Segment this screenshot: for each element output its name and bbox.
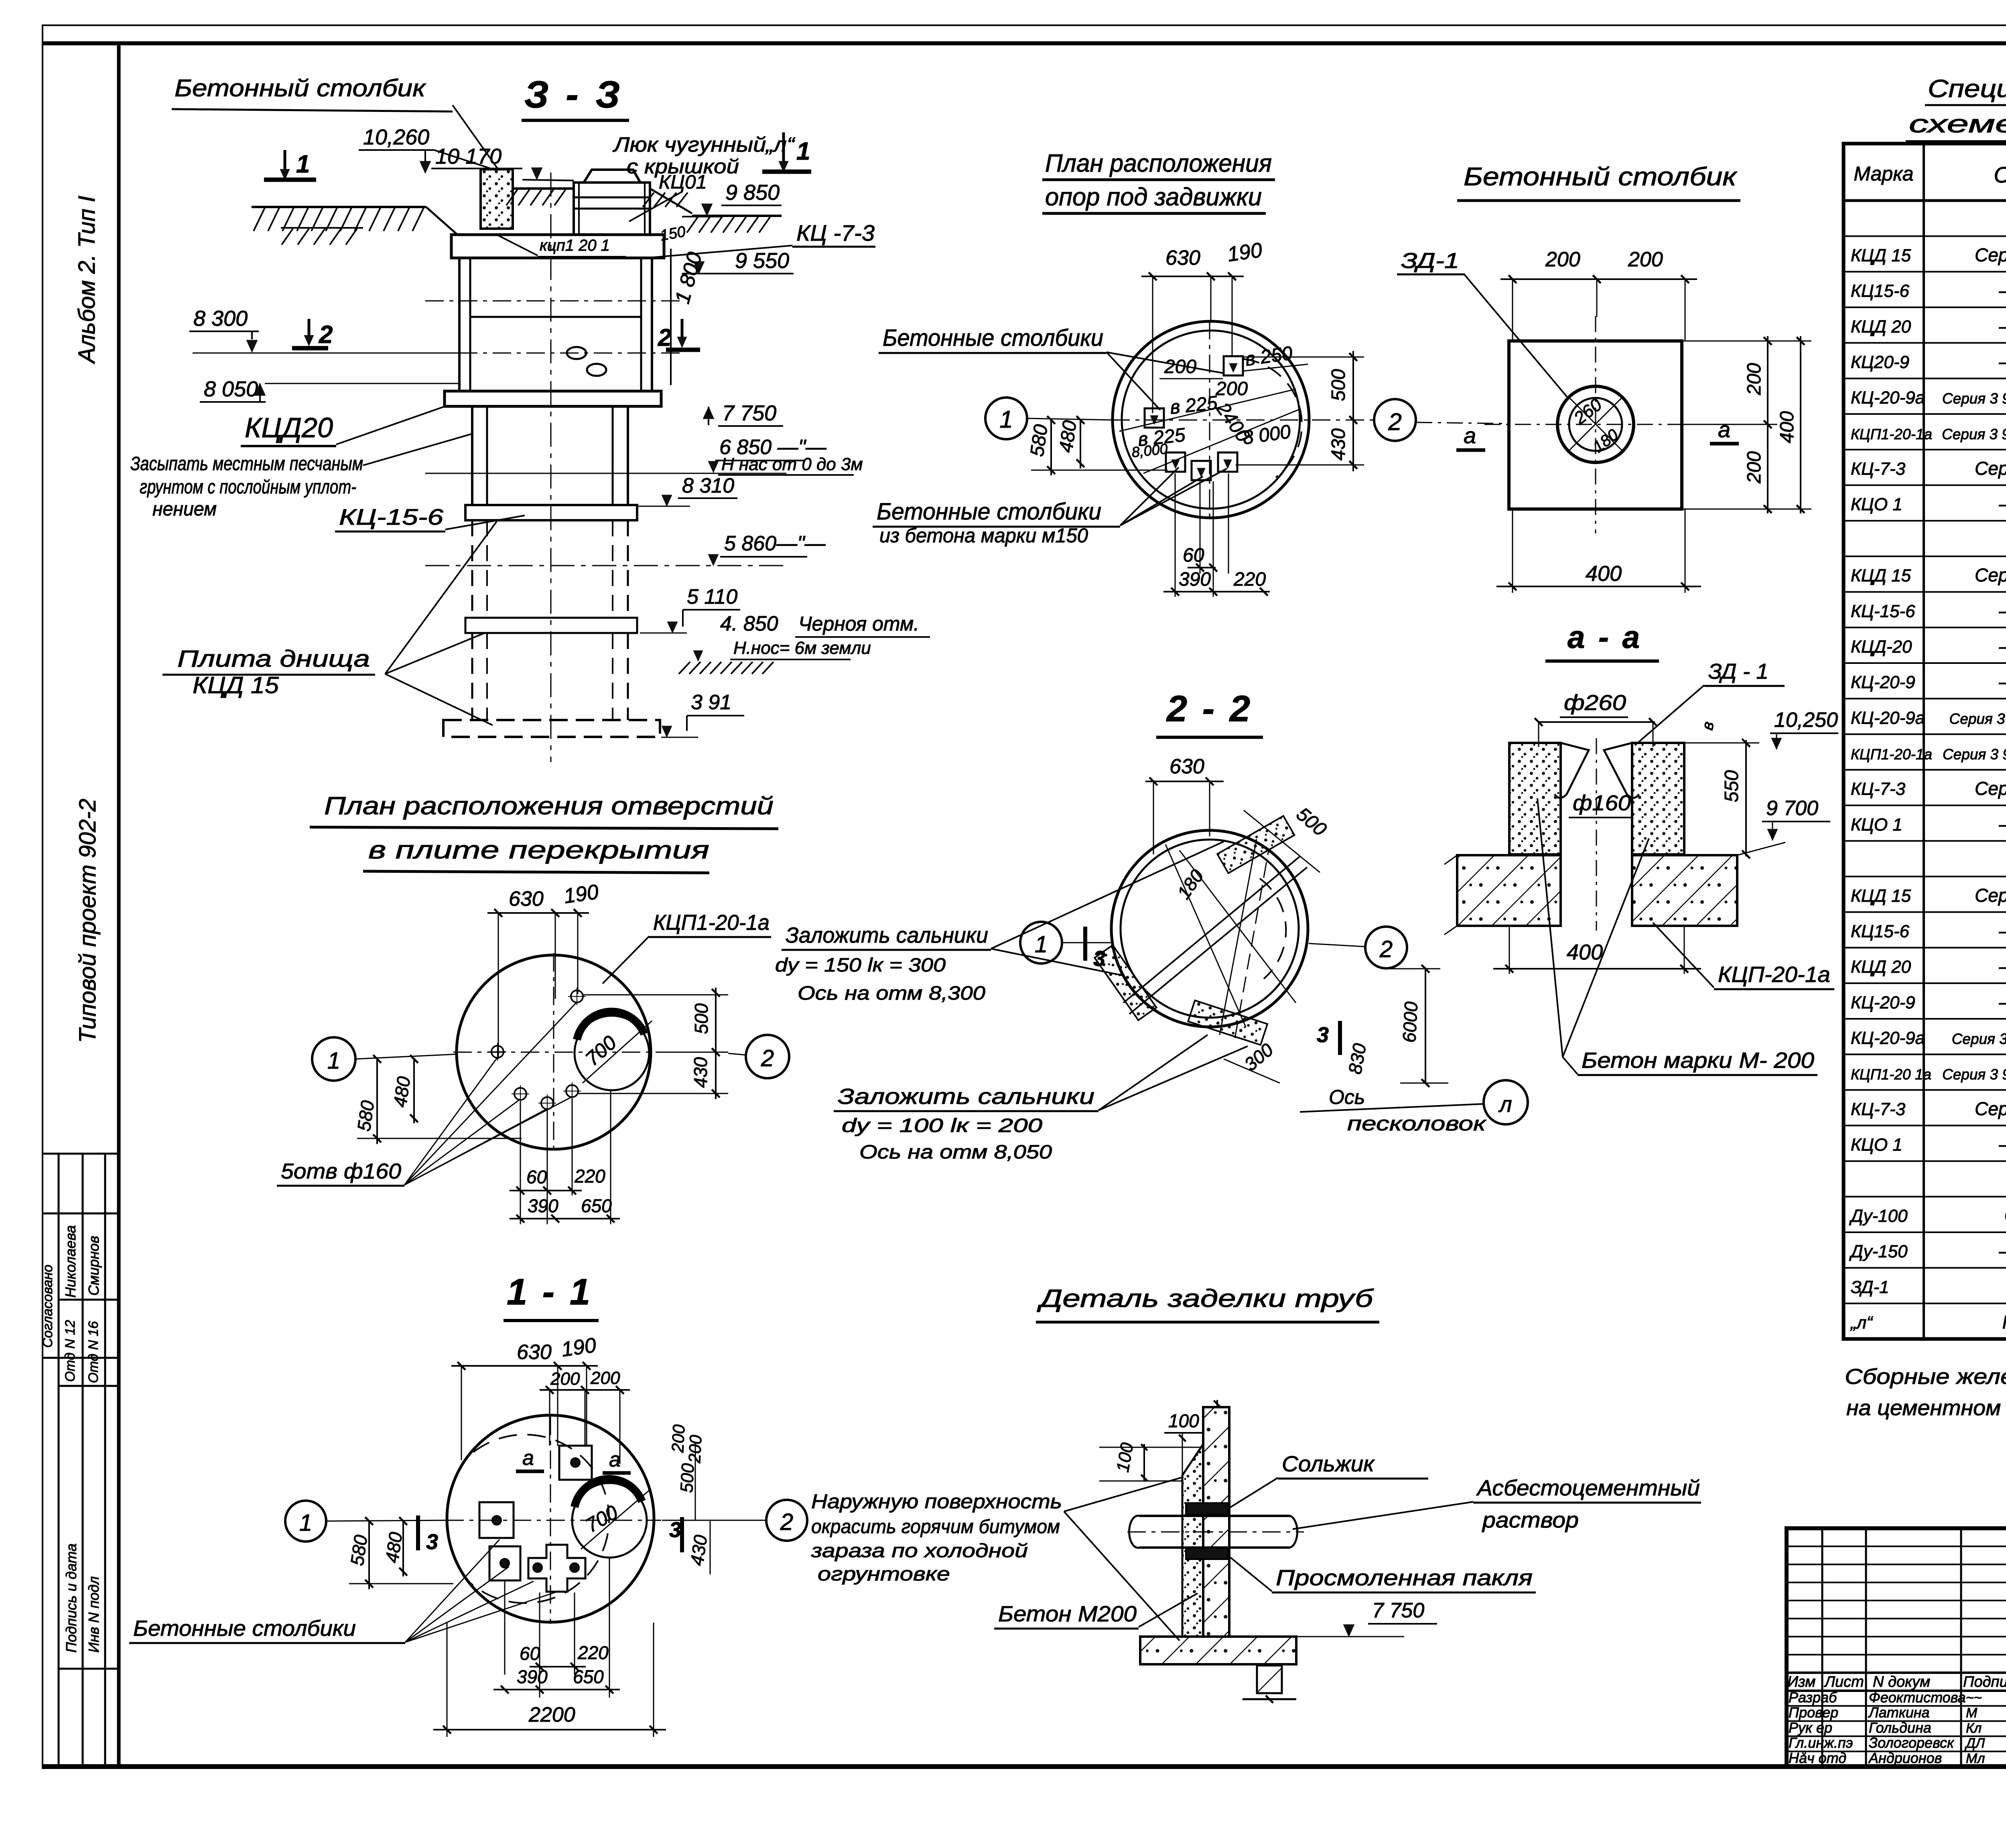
svg-text:Серия 3 900-3 вып 7: Серия 3 900-3 вып 7 — [1975, 1098, 2006, 1119]
svg-text:400: 400 — [1777, 411, 1798, 443]
lower shaft walls and rings — [443, 172, 660, 762]
svg-text:60: 60 — [1183, 545, 1204, 566]
svg-text:М: М — [1966, 1706, 1978, 1721]
svg-text:390: 390 — [1179, 569, 1211, 590]
svg-text:грунтом с послойным уплот-: грунтом с послойным уплот- — [140, 477, 356, 498]
holes plan dims 630 190 — [487, 880, 600, 1059]
svg-text:в: в — [1699, 720, 1718, 731]
svg-text:550: 550 — [1721, 770, 1742, 802]
spec table header row — [1854, 156, 2006, 196]
svg-text:КЦ-20-9а: КЦ-20-9а — [1851, 388, 1925, 408]
svg-text:из бетона марки м150: из бетона марки м150 — [879, 524, 1088, 547]
svg-text:630: 630 — [509, 887, 544, 911]
svg-text:dy = 100 lк = 200: dy = 100 lк = 200 — [842, 1115, 1042, 1136]
svg-text:Ось на отм 8,050: Ось на отм 8,050 — [859, 1142, 1052, 1163]
svg-text:200: 200 — [1545, 248, 1580, 271]
svg-text:Согласовано: Согласовано — [40, 1265, 55, 1348]
concrete support blocks (5 squares) — [1145, 356, 1243, 480]
svg-text:Типовой проект 902-2: Типовой проект 902-2 — [75, 799, 101, 1043]
svg-text:6000: 6000 — [1399, 1001, 1421, 1043]
1-1 dims top — [451, 1333, 630, 1464]
svg-text:Подпись и дата: Подпись и дата — [63, 1544, 79, 1653]
2-2 dims top — [1145, 755, 1331, 903]
svg-text:Инв N подл: Инв N подл — [85, 1576, 102, 1653]
svg-text:КЦД-20: КЦД-20 — [1851, 637, 1912, 657]
svg-text:Изм: Изм — [1787, 1674, 1815, 1690]
svg-text:——— „ ———: ——— „ ——— — [1999, 316, 2006, 337]
svg-text:190: 190 — [562, 880, 600, 908]
svg-text:Бетонный столбик: Бетонный столбик — [175, 75, 426, 101]
svg-text:Отд N 16: Отд N 16 — [86, 1321, 101, 1383]
1-1 support squares — [479, 1446, 592, 1592]
left margin rotated captions — [40, 196, 102, 1653]
svg-text:3: 3 — [426, 1530, 438, 1554]
svg-text:——— „ ———: ——— „ ——— — [1999, 1241, 2006, 1262]
plan title: План расположения опор под задвижки — [1042, 150, 1275, 213]
svg-text:——— „ ———: ——— „ ——— — [1999, 920, 2006, 941]
svg-text:——— „ ———: ——— „ ——— — [1999, 636, 2006, 657]
level 3 91 — [661, 691, 744, 737]
2-2 axis bubble 1 and cut 3 left — [1020, 922, 1111, 971]
svg-text:700: 700 — [581, 1031, 621, 1071]
svg-text:Ось: Ось — [1329, 1086, 1365, 1108]
dim ф160 — [1569, 791, 1631, 818]
svg-text:КЦ01: КЦ01 — [659, 172, 707, 193]
svg-text:Серия 3901-5: Серия 3901-5 — [2004, 1205, 2006, 1226]
svg-text:Сольжик: Сольжик — [1282, 1451, 1375, 1476]
svg-text:а: а — [1718, 417, 1730, 442]
svg-text:——— „ ———: ——— „ ——— — [1999, 992, 2006, 1012]
holes plan circle — [453, 953, 661, 1154]
section 1-1 title — [504, 1272, 599, 1321]
svg-text:Бетонные столбики: Бетонные столбики — [877, 499, 1101, 525]
svg-text:Гольдина: Гольдина — [1869, 1719, 1931, 1736]
svg-text:КЦО 1: КЦО 1 — [1851, 815, 1902, 834]
title block frame — [1787, 1528, 2006, 1767]
title block revision grid — [1787, 1528, 2006, 1767]
svg-text:КЦ15-6: КЦ15-6 — [1851, 921, 1910, 941]
section cut mark 2 (right) — [658, 319, 700, 351]
svg-text:1 800: 1 800 — [671, 250, 707, 306]
svg-text:430: 430 — [690, 1057, 711, 1088]
svg-text:КЦ-7-3: КЦ-7-3 — [1851, 459, 1906, 479]
elevation 10,250 — [1770, 708, 1838, 749]
label Бетон М200 — [994, 1593, 1198, 1629]
svg-text:Серия 3 900-3 вып 7КЖИ КЦ-20-9: Серия 3 900-3 вып 7КЖИ КЦ-20-9а — [1942, 390, 2006, 407]
svg-text:Сборные железобетонные изделия: Сборные железобетонные изделия устанавли… — [1845, 1365, 2006, 1389]
chamber oval holes — [567, 347, 606, 376]
svg-text:ф260: ф260 — [1564, 691, 1626, 715]
svg-text:200: 200 — [1744, 451, 1765, 484]
dim ф260 — [1535, 691, 1657, 747]
label КЦ-7-3 — [651, 220, 875, 258]
label Бетонные столбики (1-1) — [129, 1540, 560, 1643]
svg-text:200: 200 — [590, 1368, 620, 1388]
label 5отв ф160 — [277, 1002, 577, 1186]
svg-text:Подпись: Подпись — [1963, 1674, 2006, 1690]
svg-text:200: 200 — [550, 1369, 580, 1389]
section 2-2 title — [1156, 688, 1263, 737]
1-1 bottom dims — [433, 1558, 666, 1737]
svg-text:опор под задвижки: опор под задвижки — [1045, 183, 1262, 211]
right dims 200 200 400 — [1682, 336, 1811, 513]
svg-text:Наружную поверхность: Наружную поверхность — [811, 1490, 1062, 1513]
svg-text:10,250: 10,250 — [1774, 708, 1838, 732]
svg-text:КЦП1-20-1а: КЦП1-20-1а — [1851, 426, 1932, 442]
a-a base slab hatched — [1444, 855, 1737, 935]
svg-text:Ду-150: Ду-150 — [1849, 1242, 1908, 1262]
label КЦД20 — [241, 406, 446, 446]
svg-text:ГОСТ 3634-61: ГОСТ 3634-61 — [2002, 1312, 2006, 1333]
svg-text:огрунтовке: огрунтовке — [818, 1564, 950, 1585]
svg-text:630: 630 — [517, 1341, 552, 1364]
svg-text:нением: нением — [152, 499, 217, 520]
svg-text:Бетонные столбики: Бетонные столбики — [883, 325, 1103, 351]
svg-text:N докум: N докум — [1873, 1674, 1930, 1690]
svg-text:1 - 1: 1 - 1 — [507, 1272, 593, 1312]
svg-text:630: 630 — [1169, 755, 1204, 778]
elevation 7 750 (detail) — [1296, 1599, 1437, 1637]
svg-text:2: 2 — [761, 1045, 774, 1071]
svg-text:песколовок: песколовок — [1347, 1112, 1487, 1135]
plan title: План расположения отверстий — [310, 792, 778, 873]
ground surface right of post — [506, 189, 782, 233]
svg-text:Ду-100: Ду-100 — [1849, 1206, 1908, 1226]
svg-text:8 300: 8 300 — [193, 306, 248, 331]
chamber walls — [425, 258, 682, 391]
svg-text:Марка: Марка — [1854, 162, 1913, 185]
svg-text:а - а: а - а — [1567, 619, 1642, 655]
svg-text:1: 1 — [796, 138, 810, 165]
svg-text:окрасить горячим битумом: окрасить горячим битумом — [811, 1516, 1060, 1538]
axis bubble Л — [1484, 1080, 1528, 1124]
1-1 axis bubble 2 — [662, 1500, 807, 1541]
dim 630 190 above plan — [1141, 238, 1264, 413]
svg-text:Бетон М200: Бетон М200 — [998, 1601, 1137, 1626]
svg-text:500: 500 — [1292, 803, 1331, 840]
svg-text:180: 180 — [1173, 866, 1208, 903]
label КЦП1-20-1а — [603, 911, 771, 984]
chamber bottom slab КЦД20 — [445, 391, 661, 406]
holes plan bottom dims — [510, 1090, 620, 1224]
svg-text:Разраб: Разраб — [1789, 1689, 1837, 1706]
label Просмоленная пакля — [1230, 1557, 1536, 1592]
2-2 pipes through chamber — [1123, 839, 1307, 1038]
holes plan right dims 500 430 — [578, 988, 728, 1099]
svg-text:КЦД 15: КЦД 15 — [1851, 566, 1911, 586]
ground surface left with hatch — [252, 207, 457, 245]
axis bubble 1 — [985, 398, 1113, 439]
svg-text:в плите перекрытия: в плите перекрытия — [368, 836, 709, 864]
level 8 310 — [638, 474, 737, 506]
plan title: Бетонный столбик — [1457, 162, 1740, 201]
svg-text:а: а — [522, 1446, 534, 1470]
svg-text:Провер: Провер — [1789, 1704, 1838, 1721]
gland packing bands — [1186, 1503, 1228, 1559]
svg-text:dy = 150 lк = 300: dy = 150 lк = 300 — [775, 955, 946, 976]
svg-text:Отд N 12: Отд N 12 — [63, 1320, 78, 1382]
svg-text:КЦ-7-3: КЦ-7-3 — [1851, 1099, 1906, 1119]
svg-text:Деталь заделки труб: Деталь заделки труб — [1037, 1285, 1374, 1312]
label Наружную поверхность окрасить — [811, 1477, 1184, 1641]
svg-text:200: 200 — [1744, 363, 1765, 396]
svg-text:8,000: 8,000 — [1131, 440, 1169, 460]
svg-text:КЦД 15: КЦД 15 — [1851, 886, 1911, 906]
svg-text:КЦО 1: КЦО 1 — [1851, 1135, 1902, 1155]
svg-text:на цементном растворе М-50: на цементном растворе М-50 — [1846, 1396, 2006, 1420]
svg-text:1: 1 — [296, 150, 310, 178]
svg-text:——— „ ———: ——— „ ——— — [1999, 1134, 2006, 1155]
a-a concrete post section — [1509, 738, 1684, 931]
label: Люк чугунный л с крышкой КЦ01 — [613, 133, 796, 221]
svg-text:2200: 2200 — [528, 1703, 575, 1726]
svg-text:КЦП1-20 1а: КЦП1-20 1а — [1851, 1066, 1931, 1083]
elevation 10,260 — [359, 125, 495, 173]
a-a cut marks — [1416, 417, 1739, 450]
svg-text:——— „ ———: ——— „ ——— — [1999, 493, 2006, 514]
svg-text:9 700: 9 700 — [1766, 797, 1818, 820]
svg-text:3: 3 — [1317, 1023, 1329, 1047]
label Бетонные столбики (upper) — [879, 325, 1223, 410]
svg-text:Люк чугунный„л“: Люк чугунный„л“ — [613, 133, 796, 156]
svg-text:Асбестоцементный: Асбестоцементный — [1476, 1475, 1700, 1500]
svg-text:Спецификация элементов к марки: Спецификация элементов к маркировочной — [1928, 75, 2006, 103]
spec table rows text — [1849, 207, 2006, 1333]
2-2 gland seal patches — [1094, 816, 1294, 1045]
dim 400 (a-a) — [1493, 927, 1701, 974]
svg-text:КЦ20-9: КЦ20-9 — [1851, 352, 1909, 372]
svg-text:Кл: Кл — [1966, 1720, 1982, 1736]
svg-text:480: 480 — [1055, 419, 1081, 454]
pipe — [1127, 1516, 1304, 1548]
svg-text:КЦ15-6: КЦ15-6 — [1851, 281, 1910, 301]
dim 300 on 2-2 — [1224, 1039, 1280, 1083]
svg-text:2: 2 — [1388, 408, 1401, 435]
1-1 right dims 200 500 430 — [668, 1424, 711, 1574]
section cut mark 1 (right) — [762, 132, 811, 172]
svg-text:190: 190 — [1226, 238, 1264, 266]
big hole 700 with crescent — [575, 1012, 652, 1090]
axis of sand traps label — [1300, 1086, 1487, 1135]
svg-text:Мл: Мл — [1966, 1751, 1985, 1766]
svg-text:Н.нос= 6м земли: Н.нос= 6м земли — [733, 638, 871, 658]
svg-text:Зологоревск: Зологоревск — [1869, 1734, 1955, 1751]
label Засыпать местным песчаным грунтом — [130, 434, 471, 520]
svg-text:8 050: 8 050 — [204, 377, 258, 401]
svg-text:Андрионов: Андрионов — [1868, 1750, 1942, 1766]
svg-text:КЦ-20-9а: КЦ-20-9а — [1851, 708, 1925, 728]
svg-text:а: а — [1464, 423, 1476, 448]
svg-text:60: 60 — [520, 1643, 540, 1664]
svg-text:КЦ-7-3: КЦ-7-3 — [1851, 779, 1906, 799]
svg-text:——— „ ———: ——— „ ——— — [1999, 956, 2006, 977]
level 6 850 — [425, 436, 863, 475]
svg-text:630: 630 — [1165, 246, 1200, 270]
svg-text:430: 430 — [686, 1534, 711, 1567]
inner dims 200 200 в250 в225 2400 8000 — [1119, 343, 1308, 473]
svg-text:580: 580 — [346, 1534, 371, 1567]
svg-text:Засыпать местным песчаным: Засыпать местным песчаным — [130, 453, 363, 475]
svg-text:Плита днища: Плита днища — [177, 646, 370, 672]
svg-text:220: 220 — [1233, 569, 1266, 590]
level 4.850 Черная отм — [679, 612, 930, 674]
holes plan left dims 580 480 — [353, 1055, 522, 1144]
section cut mark 1 (left) — [264, 150, 316, 180]
svg-text:1: 1 — [1035, 931, 1048, 957]
svg-text:ЗД-1: ЗД-1 — [1851, 1277, 1889, 1297]
svg-text:Ось на отм 8,300: Ось на отм 8,300 — [798, 983, 985, 1004]
svg-text:200: 200 — [1215, 378, 1248, 400]
left margin stamp table — [43, 1154, 119, 1767]
base slab — [1140, 1637, 1296, 1703]
manhole neck with cast-iron lid — [574, 170, 650, 235]
1-1 chamber circle — [445, 1415, 661, 1624]
svg-text:9 550: 9 550 — [735, 249, 789, 273]
svg-text:580: 580 — [353, 1099, 378, 1133]
svg-text:5отв ф160: 5отв ф160 — [281, 1159, 401, 1183]
title block signature rows — [1787, 1689, 2006, 1767]
svg-text:КЦ-20-9: КЦ-20-9 — [1851, 993, 1915, 1012]
spec table heading — [1906, 75, 2006, 141]
svg-text:Н нас от 0 до 3м: Н нас от 0 до 3м — [721, 454, 863, 474]
svg-text:60: 60 — [526, 1166, 547, 1187]
elevation 10 170 — [431, 144, 574, 181]
svg-text:500: 500 — [1328, 369, 1349, 401]
svg-text:в 225: в 225 — [1169, 392, 1219, 418]
svg-text:4. 850: 4. 850 — [720, 612, 778, 635]
elevation 9 700 — [1737, 797, 1830, 855]
svg-text:7 750: 7 750 — [722, 401, 776, 425]
elevation 9 850 — [682, 181, 782, 217]
1-1 a marks — [516, 1446, 631, 1473]
svg-text:500: 500 — [691, 1003, 712, 1034]
axis bubble 2 — [1312, 399, 1416, 441]
svg-text:220: 220 — [574, 1166, 605, 1187]
title block izm row labels — [1787, 1674, 2006, 1690]
svg-text:9 850: 9 850 — [725, 181, 780, 205]
svg-text:260: 260 — [1570, 395, 1606, 429]
svg-text:ЗД - 1: ЗД - 1 — [1708, 659, 1768, 684]
svg-text:2: 2 — [780, 1509, 793, 1535]
svg-text:Серия 3 900-3 в 7КЖИ-КЦП1 20 1: Серия 3 900-3 в 7КЖИ-КЦП1 20 1а — [1943, 746, 2006, 763]
svg-text:——— „ ———: ——— „ ——— — [1999, 671, 2006, 692]
svg-text:Серия 3 900-3 в 7 КЖИ-КЦ-20-9а: Серия 3 900-3 в 7 КЖИ-КЦ-20-9а — [1949, 710, 2006, 727]
chamber top slab КЦП1-20-1а — [451, 235, 664, 258]
svg-text:5 110: 5 110 — [687, 585, 737, 609]
svg-text:5 860—"—: 5 860—"— — [724, 532, 826, 555]
svg-text:КЦ-15-6: КЦ-15-6 — [1851, 601, 1915, 621]
section cut mark 2 (left) — [292, 319, 333, 349]
svg-text:400: 400 — [1586, 562, 1622, 586]
left dims 580 480 — [1026, 416, 1167, 475]
svg-text:7 750: 7 750 — [1372, 1599, 1424, 1622]
concrete post plan: square — [1509, 341, 1682, 509]
section a-a title — [1545, 619, 1659, 661]
svg-text:8 000: 8 000 — [1241, 421, 1292, 449]
svg-text:Заложить сальники: Заложить сальники — [838, 1084, 1094, 1109]
label Плита днища КЦД 15 — [162, 521, 497, 725]
2-2 chamber ring — [1111, 830, 1308, 1027]
svg-text:10 170: 10 170 — [435, 144, 501, 168]
svg-text:Серия 3 900-3 в.7КЖИ КЦП1-20-1: Серия 3 900-3 в.7КЖИ КЦП1-20-1а — [1942, 1066, 2006, 1083]
1-1 big hole 700 — [572, 1479, 651, 1558]
svg-text:КЦП1-20-1а: КЦП1-20-1а — [1851, 746, 1932, 763]
svg-text:КЦД20: КЦД20 — [245, 412, 333, 443]
label Асбестоцементный раствор — [1293, 1475, 1701, 1532]
svg-text:650: 650 — [581, 1195, 612, 1216]
svg-text:2 - 2: 2 - 2 — [1166, 688, 1253, 729]
svg-text:КЦ -7-3: КЦ -7-3 — [796, 220, 875, 245]
svg-text:Николаева: Николаева — [62, 1225, 79, 1298]
dims 100 100 (detail) — [1099, 1410, 1204, 1481]
svg-text:200: 200 — [1628, 248, 1663, 271]
svg-text:Латкина: Латкина — [1868, 1704, 1930, 1721]
valve-support plan: chamber circle — [1111, 321, 1312, 521]
svg-text:КЦД 15: КЦД 15 — [1851, 245, 1911, 265]
svg-text:ЗД-1: ЗД-1 — [1401, 249, 1459, 273]
svg-text:1: 1 — [327, 1048, 340, 1074]
svg-text:300: 300 — [1240, 1039, 1277, 1075]
svg-text:3: 3 — [669, 1518, 681, 1542]
svg-text:Серия 3 900-3 вып 7: Серия 3 900-3 вып 7 — [1975, 244, 2006, 265]
bottom dim 400 — [1496, 509, 1701, 593]
svg-text:400: 400 — [1567, 940, 1603, 964]
dim 550 right — [1684, 720, 1759, 858]
svg-text:Бетонные столбики: Бетонные столбики — [133, 1616, 356, 1641]
bottom dims 60 390 220 — [1163, 473, 1270, 597]
svg-text:Серия 3 900-3 в 7КЖИ-КЦП1-20-1: Серия 3 900-3 в 7КЖИ-КЦП1-20-1а — [1942, 426, 2006, 442]
concrete post plan: circles — [1484, 316, 1707, 534]
elevation 9 550 — [682, 249, 794, 274]
svg-text:100: 100 — [1113, 1441, 1137, 1473]
svg-text:Бетон марки М- 200: Бетон марки М- 200 — [1582, 1048, 1814, 1073]
svg-text:раствор: раствор — [1482, 1507, 1579, 1532]
svg-text:ДЛ: ДЛ — [1964, 1736, 1985, 1751]
svg-text:л: л — [1498, 1091, 1512, 1117]
svg-text:КЦП1-20-1а: КЦП1-20-1а — [653, 911, 770, 935]
svg-text:Рук ер: Рук ер — [1789, 1719, 1832, 1736]
svg-text:~~: ~~ — [1966, 1690, 1982, 1706]
concrete post (left of neck) — [481, 169, 513, 229]
svg-text:Серия 3 900-3 вып 7: Серия 3 900-3 вып 7 — [1975, 885, 2006, 906]
svg-text:830: 830 — [1344, 1042, 1370, 1076]
label Бетон марки М-200 — [1537, 798, 1817, 1075]
svg-text:——— „ ———: ——— „ ——— — [1999, 600, 2006, 621]
svg-text:580: 580 — [1026, 423, 1052, 458]
svg-text:1: 1 — [999, 406, 1013, 433]
svg-text:10,260: 10,260 — [363, 125, 429, 149]
svg-text:Альбом 2. Тип I: Альбом 2. Тип I — [74, 196, 100, 364]
svg-text:Феоктистова: Феоктистова — [1869, 1689, 1966, 1706]
svg-text:КЦ-20-9: КЦ-20-9 — [1851, 673, 1915, 692]
svg-text:——— „ ———: ——— „ ——— — [1999, 280, 2006, 301]
section 3-3 title — [522, 73, 629, 120]
svg-text:100: 100 — [1168, 1410, 1199, 1431]
svg-text:650: 650 — [573, 1666, 604, 1687]
svg-text:2: 2 — [658, 324, 671, 351]
right dim 500 430 — [1236, 351, 1364, 471]
svg-text:2: 2 — [1379, 936, 1393, 962]
svg-text:КЦП-20-1а: КЦП-20-1а — [1718, 962, 1830, 987]
svg-text:ф160: ф160 — [1573, 791, 1631, 815]
1-1 axis bubble 1 — [285, 1501, 447, 1542]
svg-text:Просмоленная пакля: Просмоленная пакля — [1276, 1565, 1533, 1590]
2-2 axis bubble 2 and cut 3 right — [1309, 927, 1407, 1076]
svg-text:——— „ ———: ——— „ ——— — [1999, 351, 2006, 372]
label: Бетонный столбик (leader to post) — [172, 75, 497, 168]
svg-text:3 91: 3 91 — [691, 691, 731, 714]
svg-text:Лист: Лист — [1823, 1674, 1864, 1690]
